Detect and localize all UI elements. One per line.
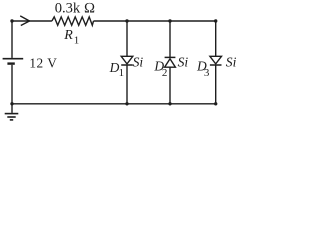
svg-text:3: 3 (204, 67, 210, 79)
svg-text:R: R (63, 28, 73, 43)
svg-text:Si: Si (178, 54, 189, 69)
svg-text:1: 1 (74, 34, 80, 46)
svg-text:12 V: 12 V (29, 55, 57, 70)
svg-text:0.3k Ω: 0.3k Ω (55, 1, 95, 17)
svg-text:Si: Si (133, 54, 144, 69)
svg-text:1: 1 (119, 67, 125, 79)
svg-text:Si: Si (226, 54, 237, 69)
svg-text:2: 2 (162, 67, 168, 79)
